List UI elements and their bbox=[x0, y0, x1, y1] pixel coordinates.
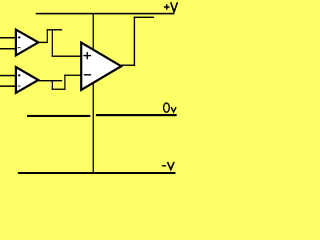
A1 - mark bbox=[18, 46, 21, 49]
wire V2 down to A3 + input bbox=[52, 29, 53, 57]
A3 + mark bbox=[83, 52, 91, 59]
op-amp A2 input - wire bbox=[0, 85, 16, 87]
stub wire (cropped, left of rail) bbox=[27, 115, 90, 117]
op-amp A2 input + wire bbox=[0, 75, 16, 77]
wire B down from A2 output bbox=[52, 81, 53, 90]
+V rail bbox=[36, 13, 175, 15]
wire D up to A3 - level bbox=[64, 75, 65, 90]
vertical supply rail bbox=[93, 13, 94, 173]
op-amp A3 output wire bbox=[121, 65, 135, 66]
+V label bbox=[164, 2, 178, 12]
A2 + mark bbox=[18, 74, 21, 77]
op-amp A2 output wire bbox=[38, 80, 62, 81]
wire to A3 + input bbox=[52, 56, 81, 57]
op-amp A3 bbox=[81, 43, 121, 91]
A3 - mark bbox=[84, 74, 91, 75]
A3 output riser bbox=[134, 17, 135, 66]
wire E to A3 - input bbox=[64, 75, 80, 76]
A2 - mark bbox=[18, 85, 21, 88]
op-amp A1 output wire bbox=[38, 42, 48, 43]
wire V1 up from A1 output bbox=[47, 29, 48, 43]
0v label bbox=[164, 103, 177, 112]
0v rail bbox=[96, 114, 177, 116]
op-amp A2 bbox=[16, 67, 38, 93]
A3 output top stub bbox=[134, 17, 154, 18]
-V rail bbox=[18, 172, 176, 174]
A1 + mark bbox=[18, 36, 21, 39]
op-amp A1 bbox=[16, 30, 38, 56]
op-amp A1 input + wire bbox=[0, 37, 16, 39]
wire H1 top horizontal bbox=[47, 29, 62, 30]
-V label bbox=[162, 162, 174, 170]
wire C bottom horizontal bbox=[52, 89, 66, 90]
op-amp A1 input - wire bbox=[0, 48, 16, 50]
